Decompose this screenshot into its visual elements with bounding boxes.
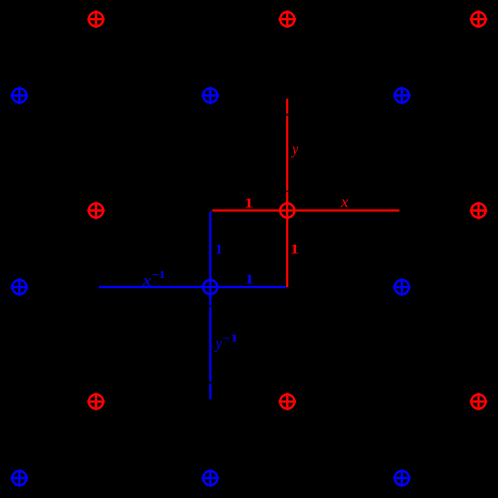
blue lattice point (19,478): [11, 469, 28, 486]
red lattice point (96,19): [87, 11, 104, 28]
svg-text:−1: −1: [222, 334, 238, 345]
blue lattice point (19,287): [11, 278, 28, 295]
red lattice point (478,210): [470, 202, 487, 219]
blue lattice point (401,287): [393, 278, 410, 295]
blue lattice point (210,287) origin: [203, 280, 217, 294]
red lattice point (287,401): [279, 393, 296, 410]
red lattice point (96,401): [87, 393, 104, 410]
svg-text:1: 1: [290, 242, 299, 257]
blue lattice point (19,95): [11, 87, 28, 104]
svg-text:−1: −1: [152, 270, 165, 281]
svg-text:x: x: [141, 272, 151, 289]
blue y axis lower segment: [209, 307, 211, 382]
red lattice point (96,210): [87, 202, 104, 219]
red lattice point (478,401): [470, 393, 487, 410]
svg-text:1: 1: [244, 196, 253, 211]
red x axis horizontal line: [212, 209, 399, 211]
red lattice point (478,19): [470, 11, 487, 28]
blue lattice point (210,478): [202, 469, 219, 486]
svg-text:y: y: [291, 141, 299, 158]
blue x axis horizontal line: [99, 286, 286, 288]
blue y axis segment up to red axis and through origin: [209, 212, 211, 306]
svg-text:1: 1: [245, 273, 254, 288]
red y axis end dash: [286, 99, 288, 114]
blue lattice point (401,478): [393, 469, 410, 486]
red y axis lower segment through origin down to blue axis: [286, 192, 288, 287]
blue lattice point (401,95): [393, 87, 410, 104]
red lattice point (287,210) origin: [280, 203, 294, 217]
blue lattice point (210,95): [202, 87, 219, 104]
red lattice point (287,19): [279, 11, 296, 28]
svg-text:x: x: [340, 194, 348, 211]
blue y axis end dash: [209, 384, 211, 400]
red y axis upper segment: [286, 116, 288, 191]
svg-text:1: 1: [215, 243, 223, 258]
